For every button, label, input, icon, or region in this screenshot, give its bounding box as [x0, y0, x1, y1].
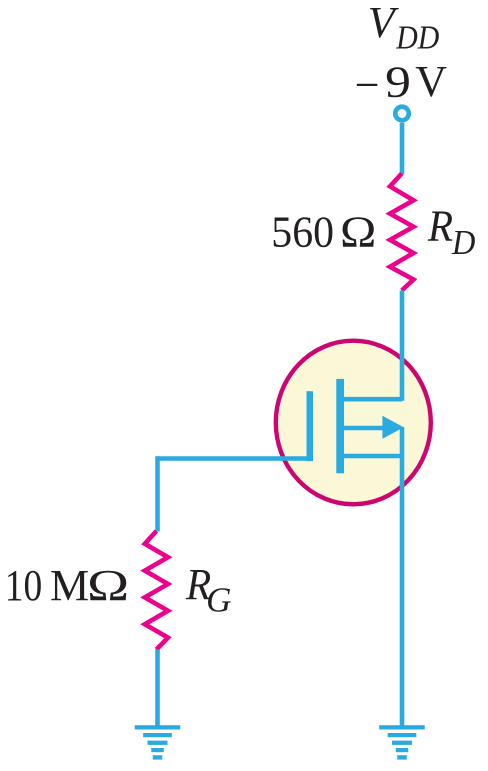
wire resistor RG to ground — [155, 650, 160, 726]
svg-text:D: D — [451, 223, 475, 262]
transistor Q1 source lead — [344, 454, 404, 459]
label 560 ohm — [271, 207, 376, 256]
transistor Q1 gate electrode bar — [307, 391, 314, 461]
ground symbol left — [135, 725, 181, 759]
svg-text:10: 10 — [5, 561, 43, 610]
wire resistor RD to drain — [400, 291, 405, 401]
transistor Q1 drain lead — [344, 397, 402, 402]
label 10 Mohm — [5, 561, 130, 610]
ground symbol right — [379, 725, 425, 759]
resistor RD 560 ohm zigzag — [390, 174, 414, 291]
svg-text:M: M — [50, 561, 89, 610]
transistor Q1 channel bar — [336, 379, 344, 473]
wire source to ground — [400, 427, 405, 726]
resistor RG 10 Mohm zigzag — [145, 531, 168, 650]
wire VDD terminal to resistor RD — [400, 123, 405, 175]
label RG — [185, 560, 231, 620]
label RD — [427, 201, 475, 261]
wire left branch down to resistor RG — [155, 456, 160, 531]
wire gate to left branch — [158, 456, 314, 461]
label VDD — [368, 0, 440, 57]
node VDD supply terminal — [395, 107, 409, 121]
transistor Q1 substrate lead — [344, 426, 386, 431]
transistor Q1 body circle — [276, 341, 431, 505]
svg-text:−: − — [355, 60, 380, 109]
svg-text:G: G — [206, 580, 231, 619]
svg-text:DD: DD — [395, 20, 439, 57]
svg-text:V: V — [415, 57, 447, 106]
svg-text:R: R — [427, 201, 453, 250]
svg-text:Ω: Ω — [87, 561, 129, 610]
svg-text:Ω: Ω — [340, 207, 376, 256]
svg-text:560: 560 — [271, 207, 334, 256]
label -9V supply value — [355, 57, 448, 109]
transistor Q1 substrate arrow (p-channel) — [382, 416, 403, 439]
svg-text:9: 9 — [385, 57, 411, 106]
svg-text:V: V — [368, 0, 400, 47]
